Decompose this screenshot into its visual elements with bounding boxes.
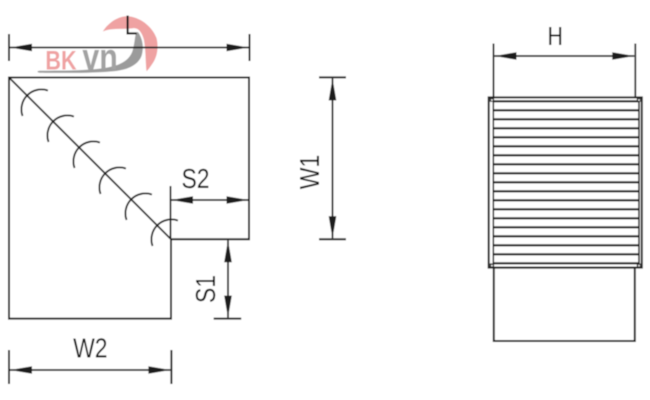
grille inner left line — [492, 97, 494, 267]
dimension L: line — [10, 47, 249, 49]
dimension H: right arrow — [612, 52, 634, 60]
screw bottom-left — [490, 263, 494, 267]
flex arc 5 — [125, 193, 151, 219]
svg-text:S2: S2 — [181, 164, 209, 195]
dimension W2: left tick — [8, 350, 10, 384]
dimension W2: right tick — [170, 350, 172, 384]
grille inner right line — [638, 97, 640, 267]
dimension S2: right arrow — [227, 196, 249, 204]
dimension W1: top tick — [319, 76, 346, 78]
left figure: corner grille outline — [9, 78, 249, 319]
logo gray swoosh — [38, 32, 143, 73]
svg-text:H: H — [548, 22, 563, 52]
svg-text:vn: vn — [82, 37, 117, 79]
dimension L: right arrow — [227, 44, 249, 52]
screw top-right — [637, 98, 641, 102]
dimension L: right tick — [249, 34, 251, 61]
svg-text:W1: W1 — [295, 155, 326, 189]
dimension W2: right arrow — [148, 366, 170, 374]
dimension L: left tick — [8, 34, 10, 61]
screw top-left — [490, 98, 494, 102]
dimension S1: bottom tick — [214, 318, 242, 320]
svg-text:L: L — [125, 10, 138, 41]
dimension W1: down arrow — [329, 216, 337, 238]
flex arc 6 — [151, 219, 177, 245]
dimension S2: left arrow — [171, 196, 193, 204]
flex arc 2 — [47, 115, 73, 141]
dimension W2: left arrow — [10, 366, 32, 374]
dimension W1: up arrow — [329, 78, 337, 100]
svg-text:W2: W2 — [73, 334, 107, 365]
dimension S2: extension line — [170, 186, 172, 239]
dimension S2: line — [171, 199, 249, 201]
dimension H: line — [495, 55, 635, 57]
dimension W1: line — [332, 78, 334, 238]
logo gray swoosh white separation — [38, 32, 143, 73]
flex arc 3 — [73, 141, 99, 167]
dimension S1: down arrow — [224, 296, 232, 318]
louvers — [493, 101, 639, 263]
dimension S1: line — [227, 240, 229, 317]
logo BKVN swoosh pink crescent — [103, 16, 158, 71]
dimension W2: line — [10, 369, 170, 371]
flex arc 1 — [21, 89, 47, 115]
dimension W1: bottom tick — [319, 238, 346, 240]
neck rectangle — [494, 268, 635, 341]
dimension H: left arrow — [495, 52, 517, 60]
right figure: grille outer frame — [489, 97, 642, 267]
svg-text:BK: BK — [45, 46, 76, 76]
screw bottom-right — [637, 263, 641, 267]
svg-text:S1: S1 — [191, 275, 222, 303]
dimension L: left arrow — [10, 44, 32, 52]
diagonal line — [9, 78, 171, 240]
dimension H: left tick — [493, 44, 495, 98]
flex arc 4 — [99, 167, 125, 193]
dimension S1: up arrow — [224, 240, 232, 262]
dimension H: right tick — [634, 44, 636, 98]
